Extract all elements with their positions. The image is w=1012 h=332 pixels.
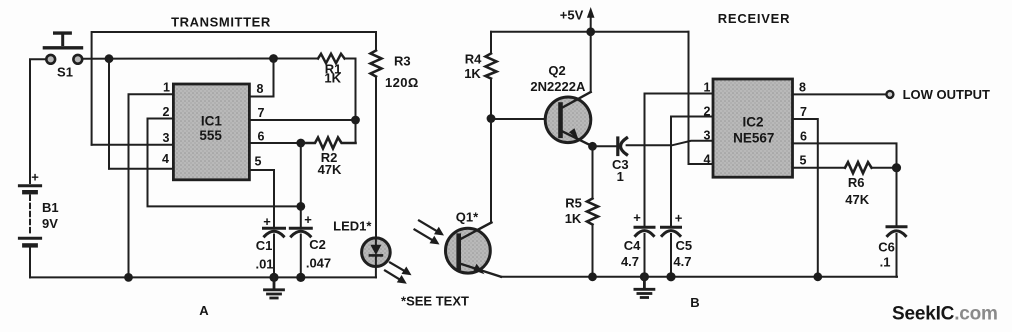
wire battery to bottom rail <box>29 248 31 277</box>
LED LED1 <box>333 219 390 267</box>
svg-text:3: 3 <box>704 129 711 143</box>
wire IC2 pin 7 to ground rail <box>793 119 818 277</box>
wire pin 1 ground net <box>129 94 174 277</box>
svg-text:1: 1 <box>704 81 711 95</box>
svg-text:R3: R3 <box>394 54 411 69</box>
resistor R5 <box>565 196 598 227</box>
svg-text:.047: .047 <box>306 256 331 271</box>
wire R6 to node <box>872 167 897 169</box>
wire +5V to IC2 pin 4 <box>689 32 714 164</box>
wire pin 7 stub <box>249 119 355 121</box>
svg-text:1K: 1K <box>324 71 341 86</box>
wire pin 2 net <box>148 119 301 207</box>
wire receiver bottom rail <box>501 276 897 278</box>
capacitor C3 <box>612 138 629 184</box>
svg-text:8: 8 <box>799 81 806 95</box>
wire transmitter bottom rail <box>30 276 376 278</box>
svg-text:5: 5 <box>800 154 807 168</box>
wire C3 to IC2 pin 3 <box>627 141 713 146</box>
svg-text:47K: 47K <box>318 162 342 177</box>
svg-text:7: 7 <box>258 106 265 120</box>
svg-text:4.7: 4.7 <box>621 254 639 269</box>
svg-text:.01: .01 <box>255 257 273 272</box>
wire R5 net <box>592 146 594 198</box>
svg-text:4.7: 4.7 <box>673 254 691 269</box>
wire pin 5 to C1 <box>249 170 274 227</box>
svg-text:6: 6 <box>258 130 265 144</box>
wire C4 to rail <box>644 234 646 277</box>
svg-text:47K: 47K <box>845 192 869 207</box>
node C1 ground <box>269 273 278 282</box>
wire Q2 emitter to C3 <box>593 145 617 147</box>
svg-text:SeekIC.com: SeekIC.com <box>892 304 998 325</box>
svg-text:R5: R5 <box>565 196 582 211</box>
svg-text:2: 2 <box>704 105 711 119</box>
wire +5V down to R4 <box>490 32 492 54</box>
svg-text:+: + <box>633 210 641 225</box>
svg-text:9V: 9V <box>42 216 58 231</box>
wire pin 8 net <box>249 59 273 97</box>
capacitor C5 <box>662 211 693 270</box>
node pin-6 junction <box>296 139 305 148</box>
node C2 top junction <box>296 202 305 211</box>
resistor R6 <box>845 162 872 207</box>
wire C6 to rail <box>896 234 898 277</box>
svg-text:7: 7 <box>800 105 807 119</box>
node pin-7 junction <box>351 116 360 125</box>
wire pin 4 stub <box>109 168 173 170</box>
wire IC2 pin 6 net <box>793 143 897 167</box>
light arrows into Q1 <box>415 221 445 245</box>
svg-text:Q1*: Q1* <box>456 210 479 225</box>
wire R5 to rail <box>592 225 594 277</box>
wire +5V rail <box>491 31 689 33</box>
node Q2 emitter junction <box>588 142 597 151</box>
svg-text:B: B <box>690 295 699 310</box>
wire pin 3 output to top rail <box>92 144 174 146</box>
svg-text:C1: C1 <box>256 238 273 253</box>
svg-text:120Ω: 120Ω <box>385 75 419 90</box>
LED emission arrows <box>385 263 412 284</box>
wire LED1 to rail <box>375 267 377 278</box>
capacitor C1 <box>255 214 284 272</box>
terminal LOW OUTPUT <box>886 91 893 98</box>
svg-text:RECEIVER: RECEIVER <box>718 11 790 26</box>
wire C2 to rail <box>300 235 302 278</box>
svg-text:Q2: Q2 <box>548 63 565 78</box>
battery B1 <box>19 170 58 246</box>
power +5V arrow <box>560 7 595 32</box>
capacitor C6 <box>878 227 906 270</box>
ground symbol receiver <box>635 277 654 298</box>
svg-text:LOW OUTPUT: LOW OUTPUT <box>903 87 990 102</box>
wire C1 to rail <box>273 235 275 278</box>
svg-text:C6: C6 <box>878 240 895 255</box>
wire R3 down to LED1 <box>375 77 377 239</box>
IC U2 NE567 <box>704 79 808 177</box>
IC U1 555 <box>162 81 265 180</box>
node C4 ground <box>640 272 649 281</box>
svg-text:B1: B1 <box>42 200 59 215</box>
svg-text:A: A <box>199 303 209 318</box>
svg-text:4: 4 <box>704 153 711 167</box>
node R5 on rail <box>588 272 597 281</box>
node pin-8 junction <box>269 54 278 63</box>
svg-text:555: 555 <box>199 128 222 143</box>
resistor R1 <box>318 54 345 86</box>
wire IC2 pin 2 net to C5 <box>671 117 713 227</box>
wire S1 left lead down to battery <box>30 59 46 183</box>
wire top transmitter rail <box>92 32 376 145</box>
svg-text:2N2222A: 2N2222A <box>530 79 586 94</box>
svg-text:.1: .1 <box>880 255 891 270</box>
wire pin2/6 node down to C2 <box>300 143 302 227</box>
node C5 on rail <box>666 272 675 281</box>
ground symbol transmitter <box>265 277 284 298</box>
wire Q2 collector to +5V <box>590 32 592 92</box>
svg-text:C5: C5 <box>675 238 692 253</box>
switch S1 <box>44 33 82 79</box>
node pin 7 on rail <box>813 272 822 281</box>
svg-text:LED1*: LED1* <box>333 219 372 234</box>
svg-text:1K: 1K <box>464 66 481 81</box>
svg-text:R4: R4 <box>465 52 482 67</box>
wire IC2 pin 1 net to C4 <box>645 94 714 227</box>
svg-text:C4: C4 <box>624 238 641 253</box>
wire pin 6 stub <box>249 142 300 144</box>
capacitor C4 <box>621 210 654 269</box>
node R6 / pin6 / C6 junction <box>892 163 901 172</box>
svg-text:+: + <box>263 214 271 229</box>
svg-text:5: 5 <box>255 155 262 169</box>
transistor Q2 <box>530 63 592 146</box>
svg-text:+: + <box>675 211 683 226</box>
svg-text:1: 1 <box>617 169 624 184</box>
transistor Q1 <box>446 210 502 277</box>
wire node A down to pin 4 <box>108 59 110 169</box>
svg-text:8: 8 <box>257 82 264 96</box>
wire IC2 pin 8 to output <box>793 93 887 95</box>
svg-text:+: + <box>31 170 39 185</box>
wire S1 to R1 (Vcc line) <box>82 58 318 60</box>
svg-text:R6: R6 <box>848 175 865 190</box>
svg-text:6: 6 <box>800 130 807 144</box>
svg-text:IC2: IC2 <box>742 115 763 130</box>
node A (S1 junction) <box>105 54 114 63</box>
wire R1 right corner down to R2 <box>345 59 356 144</box>
svg-text:+5V: +5V <box>560 8 584 23</box>
svg-text:1K: 1K <box>565 211 582 226</box>
resistor R3 <box>371 51 419 91</box>
svg-text:1: 1 <box>163 81 170 95</box>
wire IC2 pin 5 stub <box>793 167 846 169</box>
svg-text:+: + <box>304 212 312 227</box>
svg-text:NE567: NE567 <box>733 131 774 146</box>
wire C5 to rail <box>670 234 672 277</box>
svg-text:*SEE TEXT: *SEE TEXT <box>401 294 469 309</box>
svg-text:S1: S1 <box>57 65 73 80</box>
svg-text:TRANSMITTER: TRANSMITTER <box>171 15 271 30</box>
node +5V junction <box>586 27 595 36</box>
node C2 bottom <box>296 273 305 282</box>
node Q1 collector / Q2 base junction <box>487 114 496 123</box>
wire R4 to base junction <box>490 79 492 119</box>
resistor R2 <box>301 138 356 178</box>
wire base junction to Q2 <box>491 118 559 120</box>
svg-text:IC1: IC1 <box>201 114 223 129</box>
resistor R4 <box>464 52 496 82</box>
node pin1 ground on rail <box>124 273 133 282</box>
svg-text:2: 2 <box>163 105 170 119</box>
svg-text:3: 3 <box>163 131 170 145</box>
capacitor C2 <box>290 212 331 271</box>
wire Q1 collector <box>461 119 491 239</box>
svg-text:4: 4 <box>162 152 169 166</box>
svg-text:C2: C2 <box>309 237 326 252</box>
wire node down to C6 <box>896 168 898 227</box>
